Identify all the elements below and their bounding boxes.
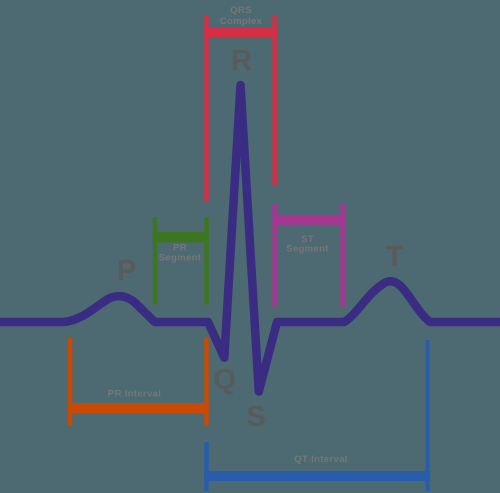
PR segment label (159, 243, 202, 264)
svg-text:Q: Q (213, 364, 236, 396)
letter Q (213, 364, 236, 396)
QRS complex bracket (red) (204, 15, 276, 202)
ST segment bracket (magenta) (272, 204, 344, 307)
ECG trace (0, 85, 500, 392)
letter R (231, 45, 252, 77)
svg-text:S: S (246, 401, 265, 433)
svg-text:Segment: Segment (286, 244, 329, 255)
PR interval label (108, 388, 161, 399)
ST segment label (286, 234, 329, 255)
svg-text:PR Interval: PR Interval (108, 388, 161, 399)
svg-text:P: P (117, 255, 136, 287)
svg-text:QT Interval: QT Interval (294, 454, 347, 465)
svg-text:Segment: Segment (159, 253, 202, 264)
PR interval bracket (orange) (68, 338, 209, 426)
letter T (386, 241, 404, 273)
letter S (246, 401, 265, 433)
svg-text:R: R (231, 45, 252, 77)
svg-text:T: T (386, 241, 404, 273)
letter P (117, 255, 136, 287)
svg-text:Complex: Complex (220, 16, 263, 27)
QRS complex label (220, 5, 263, 27)
PR segment bracket (green) (153, 217, 209, 305)
QT interval label (294, 454, 347, 465)
svg-text:QRS: QRS (230, 5, 252, 16)
QT interval bracket (blue) (204, 340, 430, 491)
